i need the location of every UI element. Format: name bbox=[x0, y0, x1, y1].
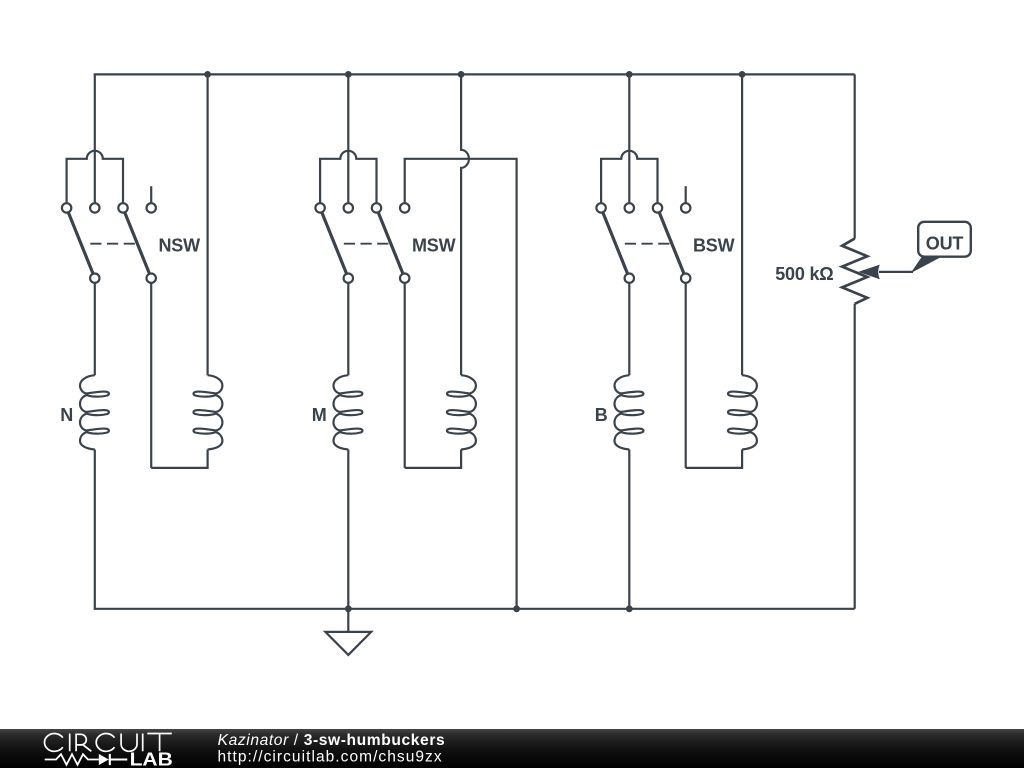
switch BSW throw contact 1 bbox=[625, 274, 634, 283]
wire N left coil top lead bbox=[94, 283, 96, 375]
inductor N right coil bbox=[194, 375, 223, 449]
wire M right coil top lead bbox=[461, 74, 469, 375]
junction bottom bus / MSW jumper bbox=[513, 605, 520, 612]
inductor B (left coil) bbox=[615, 375, 644, 449]
svg-text:BSW: BSW bbox=[693, 236, 735, 256]
svg-text:OUT: OUT bbox=[926, 233, 964, 253]
svg-text:M: M bbox=[312, 405, 327, 425]
wire M left coil bottom lead to bus bbox=[347, 450, 349, 609]
svg-text:Kazinator / 3-sw-humbuckers: Kazinator / 3-sw-humbuckers bbox=[218, 732, 446, 749]
switch NSW arm 1 bbox=[68, 212, 93, 273]
footer bar bbox=[0, 729, 1024, 768]
switch MSW throw contact 2 bbox=[400, 274, 409, 283]
svg-text:B: B bbox=[595, 405, 608, 425]
junction top bus / M right coil bbox=[458, 71, 465, 78]
wire bottom bus bbox=[94, 608, 855, 610]
wire pot bottom lead bbox=[854, 304, 856, 609]
wire N left coil bottom lead to bus bbox=[94, 450, 96, 609]
inductor N (left coil) bbox=[80, 375, 109, 449]
svg-text:NSW: NSW bbox=[159, 236, 201, 256]
wire M left coil top lead bbox=[347, 283, 349, 375]
wire M jog to right coil bbox=[405, 450, 461, 468]
logo diode bbox=[99, 754, 109, 765]
switch BSW throw contact 2 bbox=[681, 274, 690, 283]
logo resistor squiggle bbox=[45, 754, 99, 765]
wire NSW bracket with hop bbox=[67, 151, 123, 203]
switch BSW gang dashes bbox=[625, 243, 670, 245]
wire B left coil top lead bbox=[628, 283, 630, 375]
wire B throw-2 drop bbox=[685, 283, 687, 468]
switch NSW terminal 1 bbox=[62, 203, 71, 212]
wire pot top lead bbox=[854, 74, 856, 238]
wire B switch common drop bbox=[628, 74, 630, 203]
switch NSW gang dashes bbox=[90, 243, 135, 245]
pot wiper arrow bbox=[858, 265, 880, 280]
net flag OUT box bbox=[918, 222, 971, 257]
switch BSW terminal 3 bbox=[653, 203, 662, 212]
wire M switch common drop bbox=[347, 74, 349, 203]
inductor B right coil bbox=[728, 375, 757, 449]
junction top bus / N right coil bbox=[204, 71, 211, 78]
switch MSW throw contact 1 bbox=[344, 274, 353, 283]
svg-text:MSW: MSW bbox=[412, 236, 456, 256]
switch BSW terminal 4 bbox=[681, 203, 690, 212]
wire B right coil top lead bbox=[741, 74, 743, 375]
net flag OUT tail bbox=[911, 257, 943, 274]
switch BSW arm 2 bbox=[659, 212, 684, 273]
wire wiper to OUT bbox=[879, 271, 913, 273]
wire N throw-2 drop bbox=[150, 283, 152, 468]
junction bottom bus / ground bbox=[345, 605, 352, 612]
switch MSW gang dashes bbox=[344, 243, 389, 245]
switch NSW terminal 2 (common) bbox=[90, 203, 99, 212]
switch MSW arm 1 bbox=[322, 212, 347, 273]
switch MSW arm 2 bbox=[378, 212, 403, 273]
wire MSW pole jumper to bottom bus bbox=[405, 159, 517, 609]
wire top bus bbox=[94, 73, 855, 75]
wire N switch common drop bbox=[94, 74, 96, 203]
wire M throw-2 drop bbox=[404, 283, 406, 468]
junction bottom bus / B left coil bbox=[626, 605, 633, 612]
svg-text:http://circuitlab.com/chsu9zx: http://circuitlab.com/chsu9zx bbox=[218, 748, 443, 765]
switch NSW arm 2 bbox=[125, 212, 150, 273]
switch MSW terminal 3 bbox=[372, 203, 381, 212]
switch NSW terminal 4 bbox=[147, 203, 156, 212]
CircuitLab logo text CIRCUIT bbox=[44, 733, 171, 751]
potentiometer 500k body (zigzag) bbox=[842, 239, 867, 304]
wire NSW pole stub (n.c.) bbox=[150, 186, 152, 203]
wire N jog to right coil bbox=[151, 450, 207, 468]
wire B jog to right coil bbox=[686, 450, 742, 468]
svg-text:LAB: LAB bbox=[130, 749, 173, 768]
wire ground stub bbox=[347, 609, 349, 632]
wire MSW bracket with hop bbox=[320, 151, 376, 203]
junction top bus / B common bbox=[626, 71, 633, 78]
switch BSW arm 1 bbox=[603, 212, 628, 273]
switch MSW terminal 1 bbox=[315, 203, 324, 212]
junction top bus / M common bbox=[345, 71, 352, 78]
inductor M right coil bbox=[447, 375, 476, 449]
wire B left coil bottom lead to bus bbox=[628, 450, 630, 609]
inductor M (left coil) bbox=[334, 375, 363, 449]
svg-text:500 kΩ: 500 kΩ bbox=[775, 264, 833, 284]
switch NSW terminal 3 bbox=[118, 203, 127, 212]
wire BSW bracket with hop bbox=[601, 151, 657, 203]
junction top bus / B right coil bbox=[739, 71, 746, 78]
switch NSW throw contact 1 bbox=[90, 274, 99, 283]
switch BSW terminal 1 bbox=[596, 203, 605, 212]
switch NSW throw contact 2 bbox=[147, 274, 156, 283]
switch MSW terminal 2 (common) bbox=[344, 203, 353, 212]
wire N right coil top lead bbox=[207, 74, 209, 375]
switch BSW terminal 2 (common) bbox=[625, 203, 634, 212]
wire BSW pole stub (n.c.) bbox=[685, 186, 687, 203]
switch MSW terminal 4 bbox=[400, 203, 409, 212]
svg-text:N: N bbox=[60, 405, 73, 425]
ground symbol bbox=[325, 632, 371, 655]
